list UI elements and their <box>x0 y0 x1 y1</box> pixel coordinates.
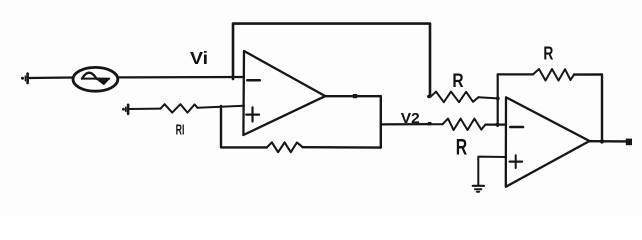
svg-text:V2: V2 <box>401 111 420 127</box>
svg-text:R: R <box>543 42 553 63</box>
svg-text:R: R <box>452 70 463 92</box>
svg-text:RI: RI <box>176 121 185 138</box>
svg-text:Vi: Vi <box>190 48 208 68</box>
svg-text:R: R <box>456 134 467 159</box>
